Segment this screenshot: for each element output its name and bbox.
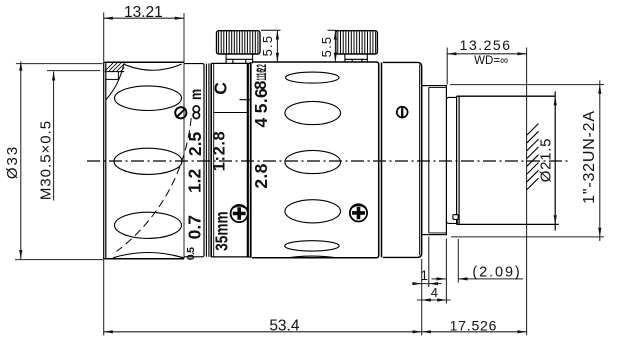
svg-text:1:2.8: 1:2.8 xyxy=(210,131,228,172)
svg-text:53.4: 53.4 xyxy=(269,318,300,335)
svg-text:5.6: 5.6 xyxy=(251,88,271,113)
svg-text:35mm: 35mm xyxy=(213,211,232,250)
svg-text:0.5: 0.5 xyxy=(185,247,197,260)
svg-text:22: 22 xyxy=(253,64,269,71)
svg-text:C: C xyxy=(211,82,231,95)
svg-text:8: 8 xyxy=(252,81,270,90)
svg-text:13.256: 13.256 xyxy=(460,37,512,53)
svg-text:Ø21.5: Ø21.5 xyxy=(538,138,555,182)
svg-text:2.5: 2.5 xyxy=(185,132,205,157)
svg-text:M30.5×0.5: M30.5×0.5 xyxy=(38,120,55,200)
svg-text:2.8: 2.8 xyxy=(251,163,271,188)
svg-text:m: m xyxy=(187,89,205,100)
svg-text:1.2: 1.2 xyxy=(185,168,205,193)
svg-text:Ø33: Ø33 xyxy=(4,145,21,179)
svg-text:5.5: 5.5 xyxy=(319,36,334,58)
svg-text:5.5: 5.5 xyxy=(260,35,275,57)
svg-text:4: 4 xyxy=(251,118,271,128)
svg-text:17.526: 17.526 xyxy=(450,318,498,334)
svg-text:1: 1 xyxy=(420,268,428,283)
svg-text:4: 4 xyxy=(431,285,438,300)
svg-text:0.7: 0.7 xyxy=(185,215,205,239)
svg-text:13.21: 13.21 xyxy=(124,4,163,21)
svg-text:WD=∞: WD=∞ xyxy=(474,55,508,67)
svg-text:(2.09): (2.09) xyxy=(472,264,521,280)
svg-text:1"-32UN-2A: 1"-32UN-2A xyxy=(581,110,598,204)
